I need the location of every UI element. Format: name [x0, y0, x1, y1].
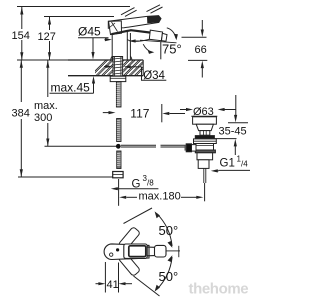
svg-text:max.: max.: [34, 100, 58, 112]
svg-text:384: 384: [12, 108, 30, 120]
svg-text:154: 154: [12, 30, 30, 42]
svg-text:117: 117: [130, 107, 149, 121]
svg-text:50°: 50°: [159, 269, 179, 284]
svg-text:Ø45: Ø45: [78, 25, 101, 39]
svg-text:75°: 75°: [162, 42, 182, 57]
svg-text:Ø63: Ø63: [193, 106, 214, 118]
svg-text:/8: /8: [147, 179, 154, 188]
svg-text:300: 300: [34, 112, 52, 124]
svg-text:/4: /4: [241, 160, 248, 169]
svg-text:127: 127: [38, 31, 56, 43]
svg-text:Ø34: Ø34: [143, 70, 165, 82]
svg-text:35-45: 35-45: [219, 126, 247, 138]
svg-text:66: 66: [195, 44, 207, 56]
svg-text:thehome: thehome: [189, 281, 249, 298]
svg-text:50°: 50°: [159, 223, 179, 238]
svg-text:G1: G1: [220, 158, 235, 170]
svg-text:max.180: max.180: [139, 191, 181, 203]
svg-text:max.45: max.45: [51, 81, 91, 95]
svg-text:41: 41: [107, 279, 119, 291]
